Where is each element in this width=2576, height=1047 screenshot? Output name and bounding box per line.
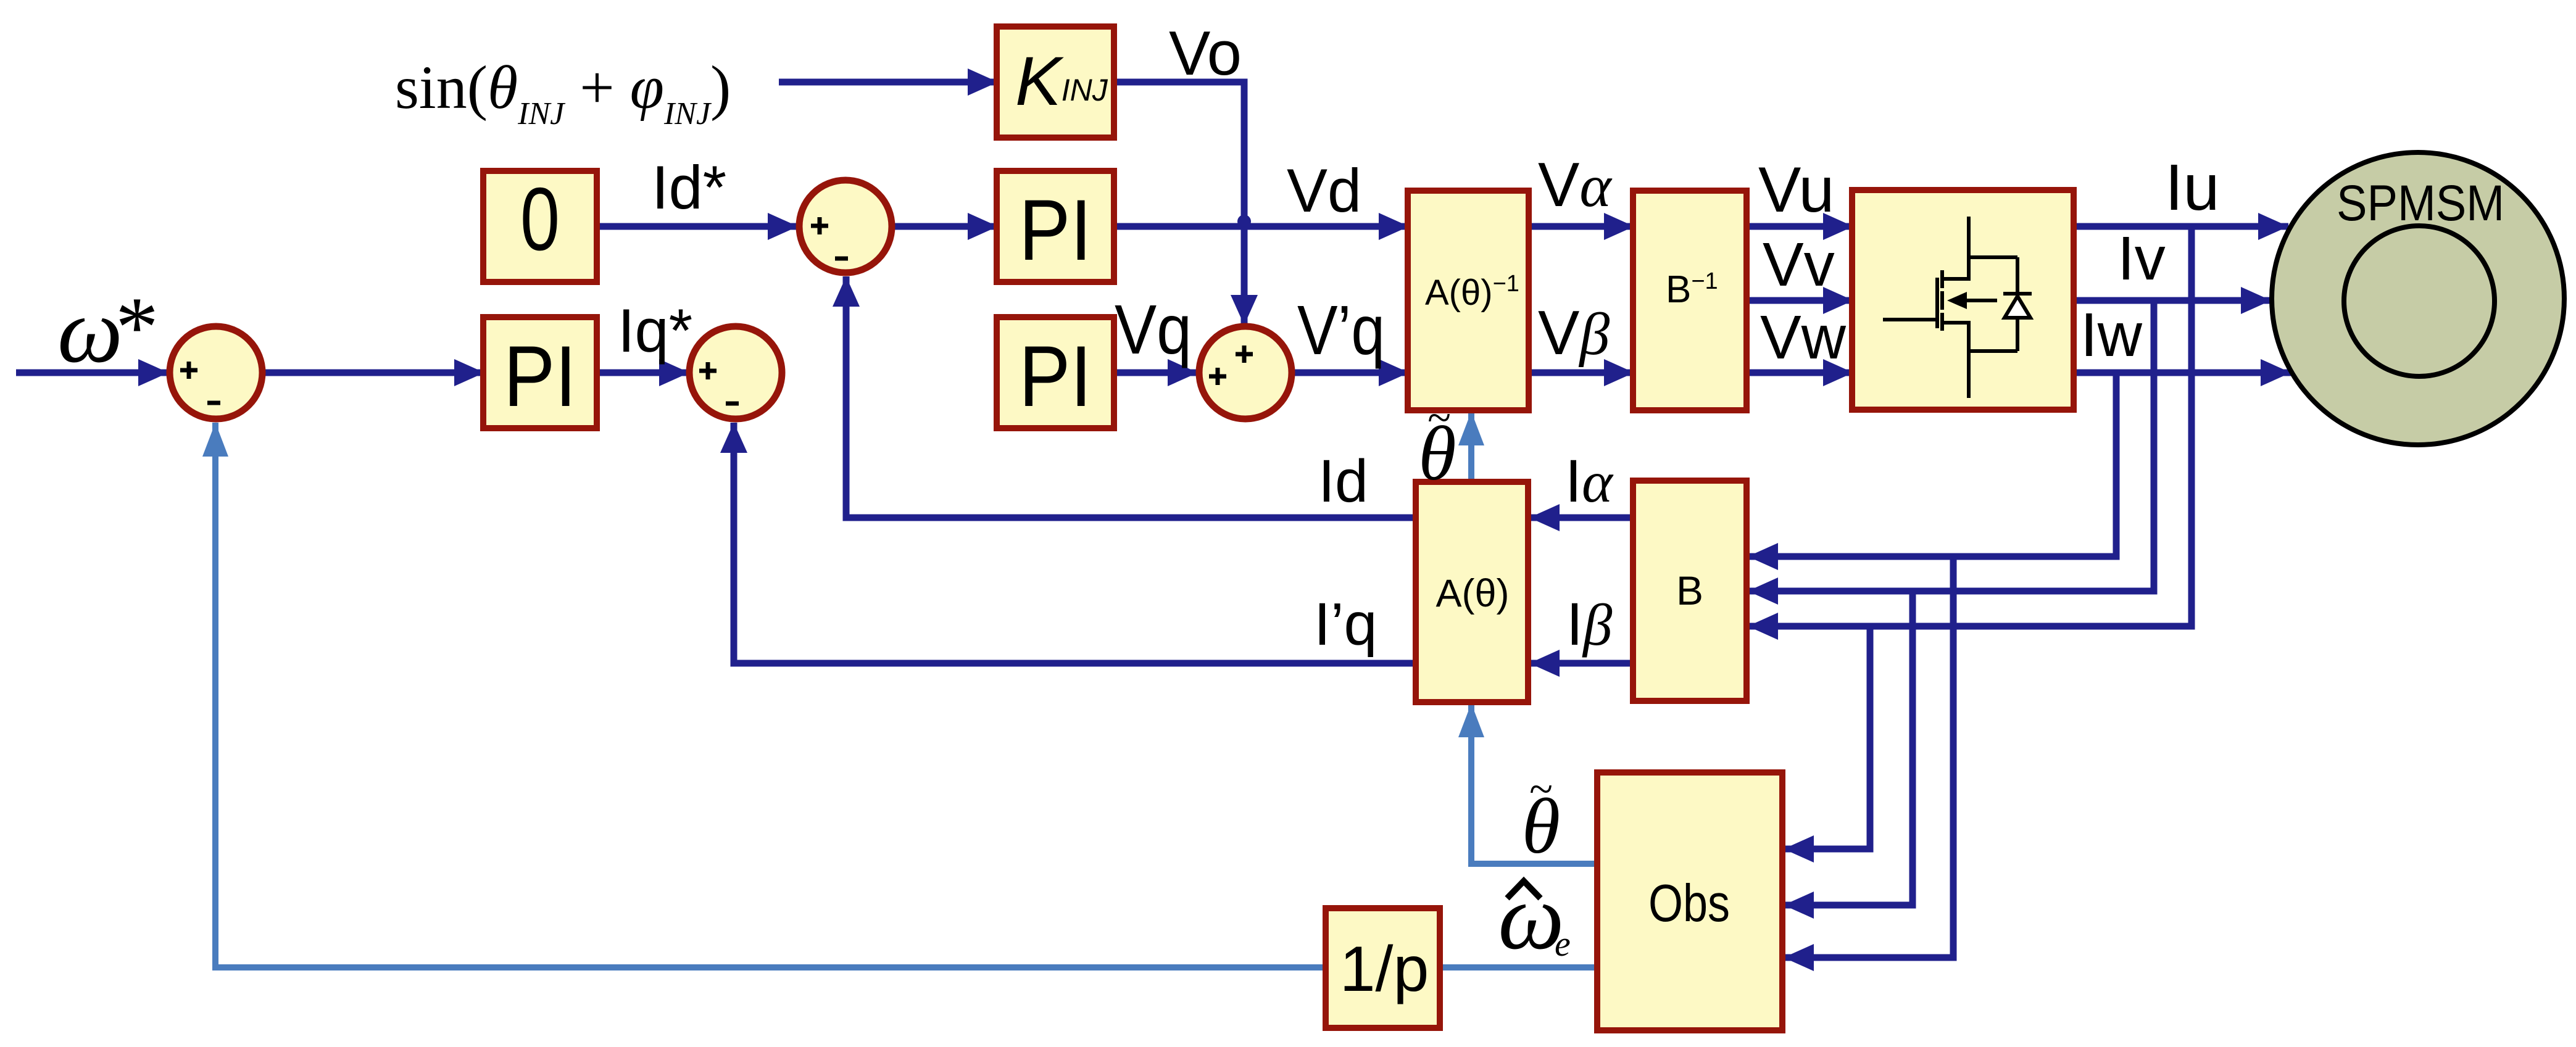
svg-text:Iq*: Iq* [618, 296, 692, 365]
S3 minus sign [726, 402, 739, 406]
wire theta from A(theta) top into A(theta)inv bottom (light blue) [1468, 412, 1474, 482]
block PI q-axis [997, 317, 1114, 428]
svg-text:~: ~ [1529, 766, 1553, 813]
S4 plus sign top [1236, 352, 1253, 357]
wire Binv to inverter (Vv) [1747, 297, 1853, 304]
block A(theta) [1416, 482, 1528, 702]
svg-text:Iβ: Iβ [1566, 590, 1613, 658]
wire 1/p output speed feedback to sum S1 (light blue) [215, 423, 1326, 967]
svg-text:Vu: Vu [1758, 154, 1834, 226]
svg-text:B: B [1676, 568, 1703, 613]
wire A(theta)inv to Binv (Vbeta) [1529, 370, 1634, 376]
transistor body stub [1966, 299, 1997, 302]
transistor gate bar [1935, 278, 1939, 328]
sum junction S1 speed error [170, 326, 262, 419]
svg-text:Vw: Vw [1760, 303, 1847, 372]
svg-text:A(θ): A(θ) [1435, 572, 1509, 615]
SPMSM motor outer circle [2272, 152, 2564, 445]
plus minus signs on sum junctions [180, 217, 1253, 403]
S1 plus sign [180, 368, 197, 373]
block inverter [1852, 190, 2074, 410]
wire Iw tap down to B input top [1748, 373, 2116, 557]
diode upper lead [2016, 257, 2019, 294]
wire PI d to A(theta)inv (Vd) [1114, 223, 1409, 230]
svg-text:Vα: Vα [1538, 151, 1613, 220]
svg-text:Vq: Vq [1115, 291, 1192, 368]
svg-text:Vv: Vv [1763, 230, 1835, 299]
svg-text:PI: PI [1019, 328, 1092, 424]
block 0 (Id* reference) [483, 171, 597, 282]
wire A(theta) Id feedback to sum S2 [846, 276, 1416, 518]
transistor source connect [1942, 323, 1969, 398]
wire A(theta)inv to Binv (Valpha) [1529, 223, 1634, 230]
wire Iw line down to Obs input bottom [1784, 557, 1953, 958]
svg-text:PI: PI [504, 328, 576, 424]
wire S1 to PI speed [265, 370, 484, 376]
svg-text:Vβ: Vβ [1538, 299, 1610, 368]
svg-text:0: 0 [520, 169, 560, 269]
block B [1633, 481, 1747, 701]
svg-text:Id: Id [1318, 447, 1368, 515]
block PI d-axis [997, 171, 1114, 282]
transistor bottom rail to diode [1969, 349, 2017, 353]
wire Binv to inverter (Vw) [1747, 370, 1853, 376]
svg-text:e: e [1555, 924, 1571, 964]
transistor gate lead [1883, 318, 1937, 321]
transistor channel segment bottom [1940, 313, 1944, 331]
wire Obs theta to A(theta) (light blue) [1471, 703, 1597, 864]
wire inverter to SPMSM (Iw) [2074, 370, 2291, 376]
svg-text:Id*: Id* [652, 153, 726, 221]
transistor body arrow [1947, 292, 1967, 309]
block A(theta) inverse [1408, 191, 1529, 410]
transistor top rail to diode [1969, 255, 2017, 259]
svg-text:Obs: Obs [1648, 874, 1730, 933]
block Obs observer [1597, 772, 1782, 1030]
S4 plus sign left [1209, 375, 1226, 379]
S1 minus sign [207, 401, 220, 405]
wire S2 to PI d [894, 223, 998, 230]
wire A(theta) I'q feedback to sum S3 [734, 423, 1416, 663]
transistor channel segment top [1940, 270, 1944, 288]
wire sin() to K_INJ [779, 79, 998, 86]
block PI speed [483, 317, 597, 428]
wire PI q to sum S4 (Vq) [1114, 370, 1198, 376]
wire Iu line down to Obs input top [1784, 626, 1870, 849]
diode lower lead [2016, 318, 2019, 351]
sum junction S3 Iq error [689, 326, 782, 419]
svg-text:Iα: Iα [1565, 447, 1614, 515]
svg-text:1/p: 1/p [1340, 933, 1429, 1005]
sum junction S2 Id error [799, 180, 892, 273]
block B inverse [1633, 191, 1747, 410]
wire inverter to SPMSM (Iv) [2074, 297, 2271, 304]
S2 minus sign [835, 257, 848, 261]
junction dot Vo/Vd [1237, 215, 1251, 228]
wire B to A(theta) (Ibeta) [1529, 660, 1633, 667]
wire 0 block to sum S2 (Id*) [597, 223, 798, 230]
sum junction S4 Vq plus Vo [1199, 326, 1292, 419]
svg-text:I’q: I’q [1314, 590, 1377, 658]
S2 plus sign [811, 224, 828, 228]
wire Iu tap down to B input bottom [1748, 226, 2192, 626]
wire Iv tap down to B input middle [1748, 300, 2154, 591]
transistor drain connect [1942, 217, 1969, 279]
wire S4 to A(theta)inv (V'q) [1294, 370, 1409, 376]
block 1/p [1326, 908, 1440, 1028]
wire B to A(theta) (Ialpha) [1529, 515, 1633, 521]
svg-text:Iv: Iv [2117, 224, 2166, 293]
wire K_INJ to sum S4 (Vo) [1114, 82, 1244, 325]
diode triangle [2005, 296, 2030, 318]
svg-text:Vo: Vo [1169, 19, 1242, 88]
MOSFET symbol inside inverter [1883, 217, 2032, 398]
svg-text:Iu: Iu [2165, 151, 2219, 224]
svg-text:Iw: Iw [2080, 300, 2143, 370]
svg-text:PI: PI [1019, 181, 1092, 278]
SPMSM motor inner circle [2344, 226, 2495, 376]
svg-text:V’q: V’q [1297, 291, 1385, 369]
S3 plus sign [699, 369, 717, 373]
wire Binv to inverter (Vu) [1747, 223, 1853, 230]
diode cathode bar [2003, 292, 2032, 296]
wire PI speed to sum S3 (Iq*) [597, 370, 689, 376]
block K_INJ [997, 27, 1114, 138]
wire omega* input into sum S1 [16, 370, 168, 376]
wire inverter to SPMSM (Iu) [2074, 223, 2288, 230]
wire Obs omega to 1/p (light blue) [1440, 964, 1597, 970]
svg-text:~: ~ [1427, 394, 1451, 442]
svg-text:SPMSM: SPMSM [2337, 175, 2504, 231]
transistor channel segment middle [1940, 291, 1944, 310]
svg-text:Vd: Vd [1287, 156, 1361, 225]
svg-text:ω*: ω* [57, 279, 159, 382]
BLOCKS [483, 27, 2074, 1030]
wire Iv line down to Obs input middle [1784, 591, 1913, 905]
